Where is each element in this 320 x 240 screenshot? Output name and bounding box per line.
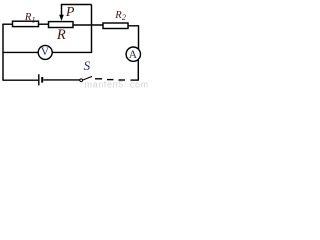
svg-text:P: P xyxy=(65,5,75,20)
wire R2 to top-right corner xyxy=(128,25,139,27)
svg-text:R: R xyxy=(56,27,66,43)
wire top-left to R1 xyxy=(2,23,12,25)
battery short plate xyxy=(41,77,43,83)
wire R1 to R xyxy=(39,23,49,25)
wire bottom-left to battery xyxy=(2,79,38,81)
battery long plate xyxy=(38,74,40,85)
slider arrow P xyxy=(61,5,63,16)
wire right vertical upper xyxy=(138,25,140,49)
svg-text:A: A xyxy=(129,49,138,61)
wire left vertical xyxy=(2,24,4,80)
resistor R1 xyxy=(13,21,39,26)
rheostat R body xyxy=(49,22,74,28)
wire bottom-right solid xyxy=(131,79,139,81)
svg-text:R2: R2 xyxy=(114,10,126,22)
svg-text:S: S xyxy=(84,58,91,73)
wire dashes to switch xyxy=(119,79,126,81)
svg-text:V: V xyxy=(41,46,50,58)
wire mid vertical x91.5 xyxy=(91,5,93,53)
voltmeter V xyxy=(38,45,52,59)
svg-text:R1: R1 xyxy=(24,12,36,24)
wire right vertical lower xyxy=(137,59,139,80)
resistor R2 xyxy=(103,23,128,29)
switch S lever xyxy=(83,76,92,80)
svg-text:manfen5. com: manfen5. com xyxy=(85,79,149,89)
wire left to voltmeter xyxy=(2,51,38,53)
wire R right to R2 xyxy=(73,24,103,26)
wire slider top xyxy=(61,4,92,6)
wire voltmeter to mid vertical xyxy=(52,51,92,53)
wire battery to switch xyxy=(43,79,79,81)
ammeter A xyxy=(126,47,140,61)
switch pivot xyxy=(80,79,83,82)
